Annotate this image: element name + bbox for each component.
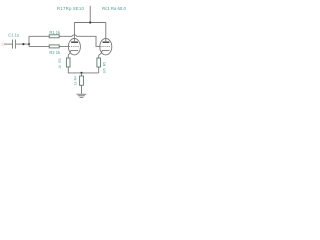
label R3 rotated bbox=[58, 58, 62, 68]
tube V1 anode lead bbox=[73, 23, 75, 43]
node dot A bbox=[22, 43, 24, 45]
ground bbox=[77, 94, 87, 98]
svg-text:R2 1k: R2 1k bbox=[49, 50, 61, 55]
svg-text:Rc1 Ra 60.0: Rc1 Ra 60.0 bbox=[102, 6, 126, 11]
svg-text:1k: 1k bbox=[73, 81, 77, 85]
B+ rail bbox=[74, 22, 105, 24]
tube V2 plate bbox=[103, 41, 110, 43]
node dot B bbox=[28, 43, 30, 45]
junction dot tail bbox=[80, 72, 82, 74]
tube V1 plate bbox=[71, 41, 78, 43]
junction dot B+ bbox=[89, 21, 91, 23]
svg-text:R3: R3 bbox=[58, 58, 62, 62]
resistor R5 cathode V2 bbox=[97, 58, 101, 67]
wire to R1 bbox=[29, 35, 49, 37]
capacitor C1 bbox=[13, 40, 16, 49]
tube V2 cathode bbox=[99, 50, 110, 58]
tube V1 cathode bbox=[68, 50, 78, 58]
wire R4 to ground bbox=[81, 85, 83, 94]
tube V2 anode lead bbox=[105, 23, 107, 43]
B+ feed wire bbox=[89, 6, 91, 23]
wire R5 to tail node bbox=[98, 67, 100, 73]
wire C1 to node bbox=[16, 43, 29, 45]
tube V2 envelope bbox=[100, 39, 112, 55]
label R4 rotated bbox=[73, 76, 77, 85]
label R5 rotated bbox=[102, 62, 106, 74]
svg-text:1k: 1k bbox=[58, 65, 62, 69]
resistor R2 bbox=[49, 45, 59, 48]
svg-text:C1 1u: C1 1u bbox=[8, 32, 19, 37]
wire R1 to tube2 grid with hop over anode lead bbox=[59, 35, 100, 47]
resistor R3 cathode V1 bbox=[66, 58, 70, 67]
resistor R1 bbox=[49, 35, 59, 38]
wire port to C1 bbox=[4, 43, 12, 45]
wire vertical split bbox=[28, 36, 30, 46]
tube V1 envelope bbox=[68, 39, 80, 55]
svg-text:R17Rp 8E10: R17Rp 8E10 bbox=[57, 6, 84, 11]
wire R3 to tail node bbox=[68, 67, 98, 73]
svg-text:1k5: 1k5 bbox=[102, 68, 106, 73]
svg-text:R1 1k: R1 1k bbox=[49, 30, 61, 35]
svg-text:R5: R5 bbox=[102, 62, 106, 66]
svg-text:R4: R4 bbox=[73, 76, 77, 80]
wire tail to R4 bbox=[81, 73, 83, 76]
input port P1 bbox=[2, 43, 4, 45]
wire to R2 bbox=[29, 45, 49, 47]
resistor R4 tail bbox=[80, 76, 84, 85]
tube V1 grid bbox=[69, 45, 79, 47]
wire R2 to tube1 grid bbox=[59, 45, 69, 47]
tube V2 grid bbox=[100, 45, 110, 47]
